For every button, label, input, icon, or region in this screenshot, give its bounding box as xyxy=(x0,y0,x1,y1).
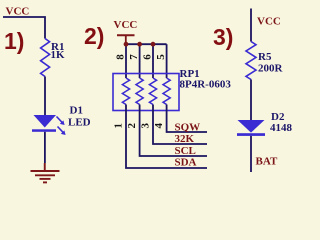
junction dot pin 7 xyxy=(137,42,142,47)
svg-text:1K: 1K xyxy=(51,49,66,61)
wire pin 2 to SCL xyxy=(140,105,207,157)
ground (power port GND, section 1) xyxy=(31,163,60,182)
svg-text:LED: LED xyxy=(68,117,91,129)
svg-text:SQW: SQW xyxy=(175,122,201,134)
junction dot pin 8 xyxy=(124,42,129,47)
resistor element pin 8 (RP1) xyxy=(122,78,129,105)
svg-text:8: 8 xyxy=(115,54,127,60)
wire pin 8 xyxy=(125,44,127,78)
svg-text:R5: R5 xyxy=(258,51,272,63)
svg-text:8P4R-0603: 8P4R-0603 xyxy=(180,79,232,91)
svg-text:5: 5 xyxy=(155,54,167,60)
wire pin 3 to 32K xyxy=(153,105,207,145)
wire D2 to BAT xyxy=(250,136,252,172)
resistor pack RP1 body xyxy=(113,74,179,111)
svg-text:1): 1) xyxy=(4,28,24,54)
svg-text:4148: 4148 xyxy=(270,122,293,134)
svg-text:SDA: SDA xyxy=(175,157,197,169)
svg-text:VCC: VCC xyxy=(257,16,281,28)
svg-text:2): 2) xyxy=(84,23,104,49)
wire pin 6 xyxy=(152,44,154,78)
wire pin 7 xyxy=(139,44,141,78)
svg-text:BAT: BAT xyxy=(256,155,278,167)
resistor R5 xyxy=(246,42,256,80)
svg-text:VCC: VCC xyxy=(6,6,30,18)
junction dot pin 6 xyxy=(151,42,156,47)
diode D2 xyxy=(237,120,265,136)
wire pin 1 to SDA xyxy=(126,105,207,169)
resistor element pin 5 (RP1) xyxy=(163,78,170,105)
svg-text:3: 3 xyxy=(140,122,152,128)
svg-text:D1: D1 xyxy=(70,105,83,117)
wire R5 to D2 xyxy=(250,80,252,121)
svg-text:SCL: SCL xyxy=(175,145,196,157)
svg-text:4: 4 xyxy=(153,122,165,128)
svg-text:2: 2 xyxy=(126,122,138,128)
svg-text:3): 3) xyxy=(213,24,233,50)
svg-text:200R: 200R xyxy=(258,62,284,74)
wire D1 to ground xyxy=(44,132,46,163)
power port VCC bar (section 2) xyxy=(117,35,135,44)
wire R1 to D1 xyxy=(44,77,46,116)
svg-text:6: 6 xyxy=(142,54,154,60)
resistor element pin 7 (RP1) xyxy=(136,78,143,105)
wire VCC to R1 (section 1) xyxy=(3,17,45,39)
resistor element pin 6 (RP1) xyxy=(149,78,156,105)
LED D1 xyxy=(32,115,66,135)
svg-text:VCC: VCC xyxy=(114,19,138,31)
resistor R1 xyxy=(41,39,50,77)
wire pin 5 xyxy=(166,44,168,78)
wire VCC to R5 (section 3) xyxy=(250,9,252,42)
svg-text:32K: 32K xyxy=(175,133,195,145)
wire VCC bus to pins (section 2) xyxy=(126,43,167,45)
svg-text:1: 1 xyxy=(113,123,125,129)
svg-text:7: 7 xyxy=(128,54,140,60)
wire pin 4 to SQW xyxy=(167,105,207,133)
